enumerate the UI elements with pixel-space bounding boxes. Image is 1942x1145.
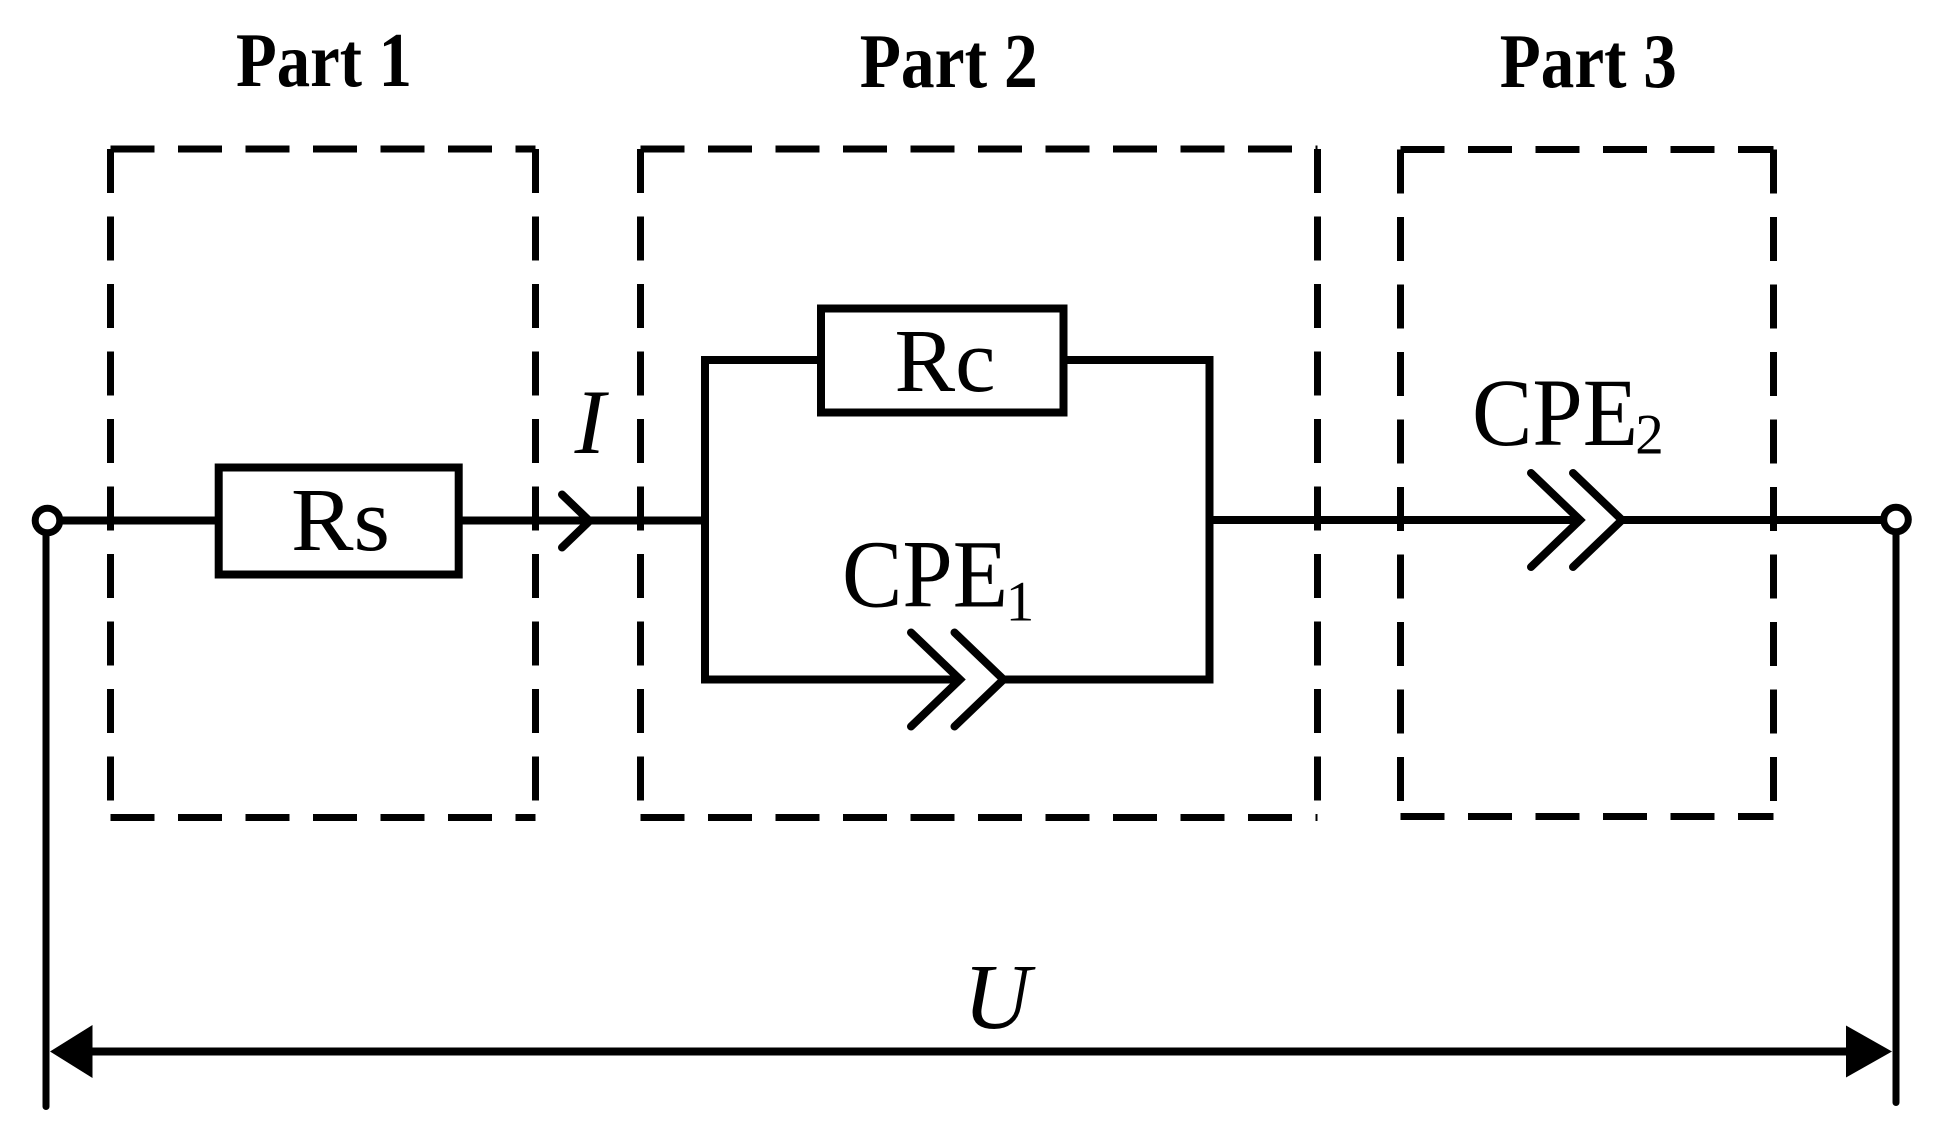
svg-text:Rs: Rs: [291, 471, 390, 570]
svg-text:Part 2: Part 2: [860, 18, 1038, 104]
current arrow I: [562, 495, 590, 548]
wire bottom branch left: [701, 676, 960, 684]
svg-text:1: 1: [1006, 571, 1035, 634]
wire Rs to node: [459, 517, 705, 525]
resistor Rc: [821, 309, 1064, 413]
svg-text:CPE: CPE: [1472, 359, 1638, 466]
svg-text:Part 3: Part 3: [1500, 18, 1677, 104]
wire parallel-block left vertical: [701, 360, 709, 680]
svg-text:I: I: [574, 371, 610, 473]
voltage arrow line U: [88, 1048, 1850, 1056]
svg-text:2: 2: [1635, 404, 1664, 467]
dashed box Part 2: [641, 149, 1318, 818]
arrowhead left: [50, 1025, 93, 1078]
wire bottom branch right: [1004, 676, 1214, 684]
wire top branch right: [1064, 356, 1214, 364]
CPE1 element chevrons: [911, 633, 1004, 727]
CPE2 element chevrons: [1531, 473, 1622, 567]
svg-text:Part 1: Part 1: [236, 17, 412, 103]
dashed box Part 1: [111, 149, 536, 818]
svg-text:CPE: CPE: [842, 521, 1008, 628]
wire CPE2 to right terminal: [1622, 516, 1884, 524]
svg-text:Rc: Rc: [895, 312, 996, 411]
wire left vertical drop: [43, 534, 50, 1107]
terminal right: [1884, 507, 1909, 532]
wire node to CPE2: [1210, 516, 1581, 524]
arrowhead right: [1846, 1026, 1892, 1078]
wire right vertical drop: [1893, 533, 1900, 1103]
dashed box Part 3: [1401, 150, 1774, 817]
wire parallel-block right vertical: [1206, 360, 1214, 680]
terminal left: [35, 508, 60, 533]
resistor Rs: [219, 468, 459, 575]
wire left terminal to Rs: [61, 517, 219, 525]
wire top branch left: [701, 356, 821, 364]
svg-text:U: U: [963, 946, 1036, 1049]
